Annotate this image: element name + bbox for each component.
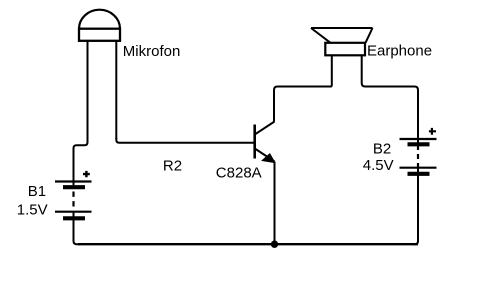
transistor Q1 emitter arrowhead — [262, 154, 275, 163]
battery B2 cell2 positive plate (long thin) — [400, 167, 437, 169]
earphone right lead wire — [362, 55, 418, 144]
battery B1 cell2 negative plate (short thick) — [63, 216, 85, 220]
battery B1 cell1 positive plate (long thin) — [55, 180, 92, 182]
wire jog from microphone left lead to battery B1 positive — [74, 140, 88, 187]
wire from battery B2 negative down to ground rail — [412, 168, 418, 245]
svg-text:Earphone: Earphone — [367, 43, 432, 60]
wire from battery B1 negative down to ground rail — [74, 212, 81, 245]
battery B1 cell2 positive plate (long thin) — [55, 211, 92, 213]
earphone left lead wire — [331, 55, 333, 86]
microphone left lead wire — [87, 41, 89, 141]
junction node dot — [271, 241, 278, 248]
battery B2 cell2 negative plate (short thick) — [408, 172, 430, 176]
emitter wire down to ground rail — [274, 162, 276, 245]
svg-text:B1: B1 — [28, 183, 46, 200]
speaker earphone cone left slant — [311, 28, 331, 43]
speaker earphone cone top line — [311, 27, 373, 29]
collector wire from transistor up to earphone left lead — [274, 87, 332, 122]
battery B2 cell1 positive plate (long thin) — [400, 138, 437, 140]
battery B1 cell1 negative plate (short thick) — [63, 185, 85, 189]
svg-text:B2: B2 — [373, 140, 391, 157]
microphone right lead wire — [115, 41, 117, 139]
svg-text:C828A: C828A — [216, 165, 262, 182]
svg-text:R2: R2 — [163, 157, 182, 174]
speaker earphone body rectangle — [325, 43, 365, 56]
svg-text:4.5V: 4.5V — [363, 157, 394, 174]
battery B1 plus sign — [83, 171, 90, 177]
transistor Q1 C828A base bar — [253, 125, 256, 159]
bottom ground rail wire — [78, 243, 418, 245]
microphone MIC body rectangle — [79, 29, 120, 41]
svg-text:1.5V: 1.5V — [17, 202, 48, 219]
svg-text:Mikrofon: Mikrofon — [123, 43, 181, 60]
battery B1 inter-cell dashed link — [72, 192, 74, 208]
transistor Q1 emitter diagonal — [256, 149, 275, 162]
base wire R2 from microphone to transistor base — [116, 138, 253, 143]
speaker earphone cone right slant — [366, 28, 373, 43]
battery B2 cell1 negative plate (short thick) — [408, 142, 430, 146]
microphone MIC dome — [79, 10, 120, 29]
battery B2 plus sign — [429, 128, 436, 135]
battery B2 inter-cell dashed link — [417, 145, 419, 168]
transistor Q1 collector diagonal — [256, 122, 275, 135]
